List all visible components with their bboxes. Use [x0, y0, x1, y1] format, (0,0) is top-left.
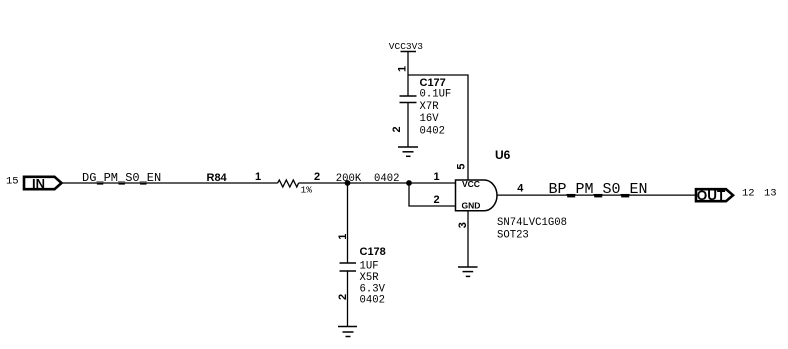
svg-text:SOT23: SOT23: [497, 229, 529, 241]
svg-text:IN: IN: [32, 176, 45, 191]
svg-text:0.1UF: 0.1UF: [420, 89, 452, 101]
port OUT: [696, 188, 733, 203]
svg-text:GND: GND: [462, 201, 481, 211]
svg-text:3: 3: [457, 222, 469, 228]
capacitor C178: [340, 263, 357, 271]
svg-text:1: 1: [397, 66, 409, 72]
capacitor C177 value text: [420, 89, 452, 138]
junction node at C178 tap: [345, 180, 351, 186]
svg-text:VCC3V3: VCC3V3: [389, 41, 424, 52]
svg-text:1: 1: [434, 171, 440, 183]
svg-text:X7R: X7R: [420, 101, 440, 113]
wire C177 to ground: [407, 103, 409, 148]
wire gate pin 3 to ground: [467, 211, 469, 267]
wire junction down and right to gate pin 2: [409, 183, 456, 206]
resistor R84: [278, 180, 299, 187]
svg-text:SN74LVC1G08: SN74LVC1G08: [497, 217, 567, 229]
wire branch to gate VCC pin 5 rail: [408, 75, 468, 180]
svg-text:C178: C178: [360, 246, 386, 258]
ground below C177: [398, 147, 418, 156]
svg-text:OUT: OUT: [697, 188, 726, 203]
ground below gate: [458, 267, 478, 276]
svg-text:4: 4: [517, 182, 524, 194]
svg-text:R84: R84: [207, 172, 228, 184]
svg-text:1%: 1%: [301, 185, 313, 196]
svg-text:2: 2: [314, 171, 320, 183]
svg-text:C177: C177: [420, 77, 446, 89]
svg-text:U6: U6: [495, 148, 511, 162]
svg-text:2: 2: [391, 126, 403, 132]
port IN: [24, 176, 62, 191]
svg-text:13: 13: [764, 188, 777, 200]
svg-text:0402: 0402: [420, 126, 445, 138]
svg-text:0402: 0402: [360, 295, 385, 307]
wire junction down to capacitor C178: [347, 183, 349, 263]
svg-text:1: 1: [255, 171, 261, 183]
svg-text:16V: 16V: [420, 113, 440, 125]
svg-text:X5R: X5R: [360, 272, 380, 284]
svg-text:15: 15: [6, 175, 19, 187]
wire C178 to ground: [347, 271, 349, 327]
svg-text:12: 12: [742, 188, 755, 200]
wire IN to resistor: [62, 182, 278, 184]
svg-text:1: 1: [337, 234, 349, 240]
net label DG_PM_S0_EN: [82, 171, 161, 185]
net label BP_PM_S0_EN: [549, 181, 648, 198]
svg-text:VCC: VCC: [462, 179, 480, 189]
wire resistor to gate input: [299, 182, 456, 184]
capacitor C177: [400, 96, 417, 103]
junction node at gate input tap: [406, 180, 412, 186]
svg-text:5: 5: [456, 163, 468, 169]
power symbol VCC3V3: [389, 41, 424, 52]
ground below C178: [338, 327, 357, 337]
svg-text:0402: 0402: [374, 173, 399, 185]
AND gate U6 body: [456, 179, 498, 211]
svg-text:2: 2: [434, 194, 440, 206]
wire gate output to OUT port: [497, 194, 695, 196]
capacitor C178 value text: [360, 261, 386, 307]
wire VCC3V3 down to C177: [407, 52, 409, 97]
